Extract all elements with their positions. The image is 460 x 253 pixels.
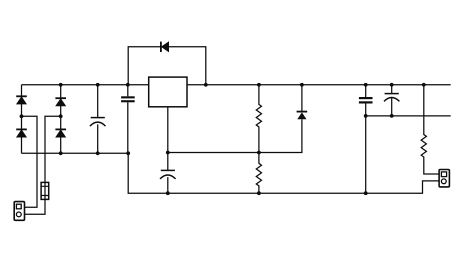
wire from left AC node to plug top pin bbox=[22, 116, 38, 207]
capacitor C1 bbox=[90, 85, 106, 154]
node R2 bottom bbox=[257, 191, 261, 195]
node C1 top bbox=[96, 83, 100, 87]
node bridge bottom right bbox=[59, 151, 63, 155]
connector J1 (mains plug) bbox=[14, 202, 24, 221]
node C2 top bbox=[126, 83, 130, 87]
resistor R2 bbox=[256, 153, 261, 194]
wire ground drop and bottom rail bbox=[128, 153, 439, 193]
wire output return line bbox=[366, 115, 451, 117]
node R1/R2 midpoint bbox=[257, 151, 261, 155]
fuse F1 bbox=[41, 182, 49, 199]
diode D1 bbox=[16, 96, 27, 104]
resistor R1 bbox=[256, 85, 261, 153]
diode D3 bbox=[55, 98, 66, 106]
node bridge-to-ground corner bbox=[126, 151, 130, 155]
node right AC midpoint bbox=[59, 114, 63, 118]
node D6 top bbox=[300, 83, 304, 87]
regulator U1 bbox=[149, 77, 187, 107]
capacitor C5 bbox=[384, 85, 399, 116]
capacitor C4 bbox=[359, 85, 373, 193]
node R1 top bbox=[257, 83, 261, 87]
node R3 top bbox=[422, 83, 426, 87]
node bridge top right bbox=[59, 83, 63, 87]
capacitor C3 bbox=[160, 170, 176, 193]
wire from right AC node through fuse to plug bottom pin bbox=[25, 116, 61, 214]
wire bypass loop over regulator bbox=[128, 47, 206, 85]
wire ADJ line bbox=[168, 119, 302, 152]
wire bridge bottom rail bbox=[22, 152, 129, 154]
node ADJ junction bbox=[166, 151, 170, 155]
node C4 top bbox=[364, 83, 368, 87]
diode D5 bbox=[161, 42, 169, 52]
node left AC midpoint bbox=[20, 114, 24, 118]
node regulator output bbox=[204, 83, 208, 87]
diode D4 bbox=[55, 129, 66, 137]
wire regulator ground pin bbox=[167, 107, 169, 170]
diode D6 bbox=[297, 85, 308, 119]
node C3 ground bbox=[166, 191, 170, 195]
resistor R3 bbox=[421, 85, 439, 174]
node C4 mid tap bbox=[364, 114, 368, 118]
wire top rail right segment bbox=[187, 84, 451, 86]
node C4 ground bbox=[364, 191, 368, 195]
wire bridge left column bbox=[21, 85, 23, 154]
capacitor C2 bbox=[121, 85, 135, 154]
node C5 bottom bbox=[390, 114, 394, 118]
node C1 bottom bbox=[96, 151, 100, 155]
connector J2 (output) bbox=[439, 170, 449, 187]
node C5 top bbox=[390, 83, 394, 87]
wire bridge right column bbox=[60, 85, 62, 154]
wire top rail left segment bbox=[22, 84, 149, 86]
diode D2 bbox=[16, 129, 27, 137]
